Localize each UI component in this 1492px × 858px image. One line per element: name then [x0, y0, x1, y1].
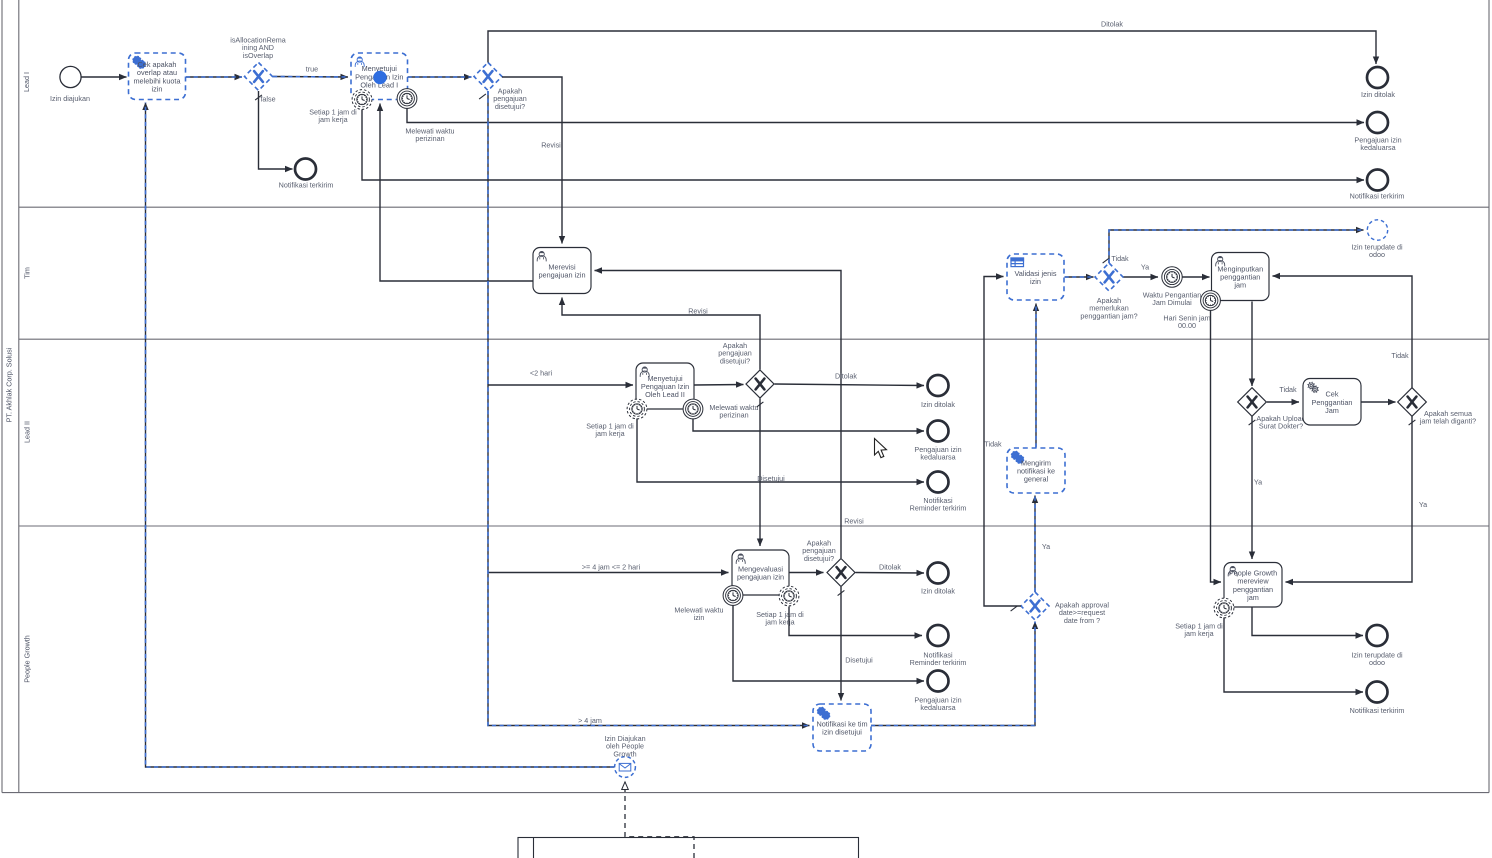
flow Disetujui to Notifikasi ke tim [840, 587, 842, 701]
flow timer to Pengajuan izin kedaluarsa (Lead II) [693, 419, 924, 432]
label Notifikasi Reminder terkirim (Lead II) [910, 496, 967, 513]
end event Izin ditolak (People Growth) [928, 563, 949, 584]
label Izin Diajukan oleh People Growth [604, 734, 645, 758]
flow >=4jam <=2hari to Mengevaluasi [488, 572, 729, 574]
svg-text:disetujui?: disetujui? [804, 554, 834, 563]
svg-text:perizinan: perizinan [415, 134, 444, 143]
svg-text:Notifikasi terkirim: Notifikasi terkirim [279, 181, 334, 190]
svg-text:PT. Akhlak Corp. Solusi: PT. Akhlak Corp. Solusi [5, 347, 14, 422]
svg-text:Izin diajukan: Izin diajukan [50, 94, 90, 103]
flow Tidak to Validasi jenis izin [984, 277, 1021, 607]
label Ya (gateway semua jam) [1419, 500, 1427, 509]
svg-text:Tidak: Tidak [984, 440, 1002, 449]
label Melewati waktu perizinan (Lead I) [405, 127, 454, 144]
task Merevisi pengajuan izin [533, 248, 591, 294]
flow Hari Senin timer to mereview [1211, 311, 1222, 583]
svg-text:Ya: Ya [1042, 542, 1050, 551]
flow Tidak back to Menginputkan [1273, 276, 1413, 388]
flow Cek Penggantian to gateway semua jam [1362, 401, 1396, 403]
label Izin ditolak (People Growth) [921, 587, 955, 596]
label Ditolak (top) [1101, 20, 1123, 29]
flow Menyetujui Lead II to gateway [695, 384, 744, 387]
svg-text:Ditolak: Ditolak [835, 372, 857, 381]
task Cek Penggantian Jam [1303, 379, 1361, 426]
end event Notifikasi Reminder terkirim (Lead II) [928, 472, 949, 493]
gateway Apakah pengajuan disetujui (People Growth) [827, 559, 855, 587]
svg-text:true: true [306, 65, 318, 74]
lane Lead I [22, 72, 31, 92]
label Setiap 1 jam di jam kerja (Lead II) [586, 422, 634, 439]
flow Ya to People Growth mereview (right) [1286, 417, 1413, 583]
timer boundary Melewati waktu (Lead I) [397, 89, 417, 109]
flow Menyetujui Lead I to gateway Apakah [408, 76, 472, 78]
label Tidak (gateway memerlukan) [1111, 254, 1129, 263]
timer intermediate catch Waktu Pengantian Jam Dimulai [1162, 267, 1182, 287]
svg-text:kedaluarsa: kedaluarsa [920, 703, 955, 712]
svg-text:Reminder terkirim: Reminder terkirim [910, 658, 967, 667]
label false [260, 95, 275, 104]
timer boundary Setiap 1 jam (Lead II) [627, 399, 647, 419]
gateway Apakah memerlukan penggantian jam [1095, 263, 1123, 291]
svg-text:jam: jam [1233, 281, 1246, 290]
label Revisi (from Lead II) [688, 307, 708, 316]
svg-text:Oleh Lead II: Oleh Lead II [645, 390, 685, 399]
svg-text:pengajuan izin: pengajuan izin [538, 271, 585, 280]
gateway Apakah pengajuan disetujui (Lead II) [746, 370, 774, 398]
task Notifikasi ke tim izin disetujui [813, 704, 871, 751]
flow Revisi gateway to Merevisi [502, 77, 562, 244]
timer boundary Melewati waktu izin [723, 586, 743, 606]
task Menyetujui Pengajuan Izin Oleh Lead I [351, 53, 408, 100]
svg-text:jam kerja: jam kerja [764, 618, 794, 627]
flow timer to Menginputkan [1183, 276, 1210, 278]
timer boundary Setiap 1 jam (mereview) [1214, 598, 1234, 618]
svg-text:>= 4 jam <= 2 hari: >= 4 jam <= 2 hari [582, 563, 641, 572]
label Setiap 1 jam di jam kerja (People Growth) [756, 610, 804, 627]
label Revisi (from Lead I) [541, 141, 561, 150]
message intermediate catch event Izin Diajukan oleh People Growth [615, 757, 636, 778]
svg-text:Growth: Growth [613, 749, 636, 758]
flow Tidak to Izin terupdate di odoo (dashed end) [1109, 230, 1364, 263]
task Menginputkan penggantian jam [1212, 253, 1270, 301]
flow Notifikasi ke tim to gateway approval [871, 622, 1035, 726]
label Setiap 1 jam di jam kerja (Lead I) [309, 108, 357, 125]
label Ditolak (People Growth) [879, 563, 901, 572]
label Waktu Pengantian Jam Dimulai [1143, 291, 1201, 308]
svg-text:perizinan: perizinan [719, 411, 748, 420]
end event Izin terupdate di odoo (bottom) [1367, 625, 1388, 646]
label Melewati waktu perizinan (Lead II) [709, 403, 758, 420]
svg-text:Jam: Jam [1325, 406, 1339, 415]
flow timer to Notifikasi terkirim (bottom) [1224, 618, 1363, 693]
svg-text:Notifikasi terkirim: Notifikasi terkirim [1350, 192, 1405, 201]
lane divider Tim [19, 207, 1489, 279]
svg-text:Reminder terkirim: Reminder terkirim [910, 504, 967, 513]
end event Pengajuan izin kedaluarsa (Lead I) [1367, 112, 1388, 133]
svg-text:People Growth: People Growth [23, 635, 32, 683]
end event Pengajuan izin kedaluarsa (People Growth) [928, 671, 949, 692]
label Apakah approval date [1055, 601, 1109, 625]
label Notifikasi Reminder terkirim (People Growth) [910, 651, 967, 668]
label > 4 jam [578, 716, 602, 725]
token blue dot [373, 71, 386, 84]
flow Ya to Mengirim notifikasi [1034, 496, 1036, 593]
end event Izin ditolak (Lead II) [928, 375, 949, 396]
svg-text:kedaluarsa: kedaluarsa [920, 453, 955, 462]
end event Izin ditolak (Lead I) [1367, 67, 1388, 88]
task People Growth mereview penggantian jam [1224, 563, 1282, 608]
flow Ditolak to Izin ditolak (Lead I) [488, 31, 1376, 64]
flow Ditolak to Izin ditolak (Lead II) [775, 384, 925, 386]
svg-text:Tim: Tim [23, 267, 32, 279]
svg-text:Ya: Ya [1141, 263, 1149, 272]
task Menyetujui Pengajuan Izin Oleh Lead II [636, 363, 694, 409]
label Izin ditolak (Lead I) [1361, 90, 1395, 99]
svg-text:izin: izin [694, 613, 705, 622]
gateway Apakah pengajuan disetujui (Lead I) [474, 63, 502, 91]
svg-text:jam kerja: jam kerja [1183, 629, 1213, 638]
gateway Apakah Upload Surat Dokter [1238, 388, 1267, 417]
flow Revisi People Growth gateway to Merevisi right [595, 271, 842, 559]
flow false to Notifikasi terkirim [259, 91, 293, 169]
svg-text:odoo: odoo [1369, 250, 1385, 259]
label Izin ditolak (Lead II) [921, 400, 955, 409]
flow Izin Diajukan event to Cek apakah [146, 103, 615, 768]
label Pengajuan izin kedaluarsa (Lead II) [914, 445, 961, 462]
end event Notifikasi terkirim (bottom) [1367, 682, 1388, 703]
svg-text:disetujui?: disetujui? [495, 102, 525, 111]
flow timer to Pengajuan izin kedaluarsa (Lead I) [407, 108, 1364, 123]
flow Validasi to gateway memerlukan [1065, 276, 1094, 278]
flow timer to Pengajuan izin kedaluarsa (People Growth) [733, 606, 924, 682]
flow timer to Notifikasi terkirim (Lead I right) [362, 110, 1364, 181]
flow Cek apakah to gateway [186, 76, 242, 78]
label Izin diajukan [50, 94, 90, 103]
label isAllocationRemaining AND isOverlap [230, 36, 286, 60]
flow timer to Notifikasi Reminder terkirim (Lead II) [637, 419, 924, 483]
svg-text:false: false [260, 95, 275, 104]
timer boundary Hari Senin jam 00.00 [1201, 291, 1221, 311]
svg-text:00.00: 00.00 [1178, 321, 1196, 330]
label Apakah pengajuan disetujui (Lead II) [718, 341, 752, 365]
svg-text:isOverlap: isOverlap [243, 51, 273, 60]
svg-text:jam kerja: jam kerja [594, 429, 624, 438]
flow Mengevaluasi to gateway (People Growth) [790, 572, 824, 574]
label Ya (gateway approval) [1042, 542, 1050, 551]
task Validasi jenis izin [1007, 254, 1064, 300]
svg-text:jam: jam [1246, 593, 1259, 602]
lane divider Lead II [19, 339, 1489, 443]
label Apakah semua jam telah diganti [1419, 409, 1476, 426]
flow timer to Notifikasi Reminder terkirim (People Growth) [789, 607, 922, 636]
svg-text:izin disetujui: izin disetujui [822, 728, 862, 737]
label Melewati waktu izin [674, 606, 723, 623]
svg-text:kedaluarsa: kedaluarsa [1360, 143, 1395, 152]
label Pengajuan izin kedaluarsa (People Growth) [914, 696, 961, 713]
svg-text:Ditolak: Ditolak [879, 563, 901, 572]
flow Mengirim notifikasi to Validasi [1035, 304, 1037, 448]
svg-text:jam telah diganti?: jam telah diganti? [1419, 417, 1476, 426]
svg-text:Revisi: Revisi [844, 517, 864, 526]
gateway isAllocationRemaining AND isOverlap [245, 63, 273, 91]
flow Menginputkan to gateway Upload [1251, 302, 1253, 387]
label Notifikasi terkirim [279, 181, 334, 190]
timer boundary Setiap 1 jam (People Growth) [779, 586, 799, 606]
svg-text:Lead I: Lead I [22, 72, 31, 92]
svg-text:Lead II: Lead II [23, 421, 32, 443]
svg-text:<2 hari: <2 hari [530, 369, 553, 378]
label Apakah memerlukan penggantian jam [1080, 296, 1137, 320]
svg-text:izin: izin [1030, 277, 1041, 286]
label Notifikasi terkirim (bottom) [1350, 706, 1405, 715]
svg-text:Disetujui: Disetujui [845, 656, 873, 665]
svg-text:Tidak: Tidak [1279, 385, 1297, 394]
flow <2 hari to Menyetujui Lead II [488, 384, 633, 386]
label <2 hari [530, 369, 553, 378]
label Pengajuan izin kedaluarsa (Lead I) [1354, 136, 1401, 153]
flow Ya to timer Waktu Pengantian [1124, 276, 1159, 278]
label Hari Senin jam 00.00 [1163, 314, 1210, 331]
task Mengevaluasi pengajuan izin [732, 550, 789, 595]
svg-text:Ditolak: Ditolak [1101, 20, 1123, 29]
svg-text:izin: izin [152, 85, 163, 94]
end event Notifikasi terkirim (Lead I right) [1367, 170, 1388, 191]
flow mereview to Izin terupdate di odoo [1252, 608, 1363, 636]
label true [306, 65, 318, 74]
label Apakah pengajuan disetujui (People Growth) [802, 539, 836, 563]
end event Pengajuan izin kedaluarsa (Lead II) [928, 421, 949, 442]
bottom pool (partially visible) [518, 838, 859, 858]
label Izin terupdate di odoo (bottom) [1351, 651, 1403, 668]
timer boundary Melewati waktu (Lead II) [683, 399, 703, 419]
label Ditolak (Lead II) [835, 372, 857, 381]
flow Disetujui down to Mengevaluasi [759, 399, 761, 547]
label Revisi (from People Growth) [844, 517, 864, 526]
svg-text:Tidak: Tidak [1111, 254, 1129, 263]
flow start to Cek apakah [81, 76, 126, 78]
lane divider People Growth [19, 526, 1489, 683]
label Notifikasi terkirim (Lead I right) [1350, 192, 1405, 201]
svg-text:Ya: Ya [1419, 500, 1427, 509]
end event Notifikasi Reminder terkirim (People Growth) [928, 625, 949, 646]
flow Tidak to Cek Penggantian Jam [1267, 401, 1299, 403]
flow Revisi Lead II gateway to Merevisi bottom [562, 298, 760, 370]
svg-text:> 4 jam: > 4 jam [578, 716, 602, 725]
flow >4jam to Notifikasi ke tim [488, 91, 810, 726]
label Disetujui (Lead II) [757, 474, 785, 483]
label Setiap 1 jam di jam kerja (mereview) [1175, 622, 1223, 639]
task Cek apakah overlap atau melebihi kuota izin [129, 53, 186, 100]
flow Merevisi to Menyetujui Lead I [380, 104, 533, 282]
svg-text:Revisi: Revisi [541, 141, 561, 150]
svg-text:Jam Dimulai: Jam Dimulai [1152, 298, 1192, 307]
svg-text:Tidak: Tidak [1391, 351, 1409, 360]
flow Ditolak to Izin ditolak (People Growth) [856, 572, 925, 575]
mouse cursor [875, 439, 887, 458]
flow Ya to People Growth mereview (top) [1251, 417, 1253, 560]
svg-text:Izin ditolak: Izin ditolak [921, 587, 955, 596]
svg-text:pengajuan izin: pengajuan izin [737, 573, 784, 582]
label Tidak (gateway Upload) [1279, 385, 1297, 394]
start event Izin diajukan [60, 66, 81, 87]
label Apakah pengajuan disetujui (Lead I) [493, 87, 527, 111]
flow true to Menyetujui Lead I [273, 76, 348, 79]
svg-text:Revisi: Revisi [688, 307, 708, 316]
svg-text:Ya: Ya [1254, 478, 1262, 487]
svg-text:penggantian jam?: penggantian jam? [1080, 311, 1137, 320]
label Ya (gateway Upload) [1254, 478, 1262, 487]
svg-text:odoo: odoo [1369, 658, 1385, 667]
gateway Apakah approval date >= request date from [1021, 592, 1049, 620]
label Ya (gateway memerlukan) [1141, 263, 1149, 272]
svg-text:general: general [1024, 475, 1049, 484]
svg-text:disetujui?: disetujui? [720, 356, 750, 365]
gateway Apakah semua jam telah diganti [1398, 388, 1427, 417]
message flow from bottom pool to event [625, 782, 694, 858]
label >= 4 jam <= 2 hari [582, 563, 641, 572]
label Tidak (gateway semua jam) [1391, 351, 1409, 360]
svg-text:jam kerja: jam kerja [317, 115, 347, 124]
end event Notifikasi terkirim (Lead I) [295, 159, 316, 180]
label Apakah Upload Surat Dokter [1256, 414, 1305, 431]
svg-text:Izin ditolak: Izin ditolak [1361, 90, 1395, 99]
task Mengirim notifikasi ke general [1007, 448, 1065, 493]
svg-text:Izin ditolak: Izin ditolak [921, 400, 955, 409]
label Disetujui (People Growth) [845, 656, 873, 665]
svg-text:Notifikasi terkirim: Notifikasi terkirim [1350, 706, 1405, 715]
label Tidak (gateway approval) [984, 440, 1002, 449]
end event Izin terupdate di odoo (selected) [1367, 220, 1387, 240]
timer boundary Setiap 1 jam (Lead I) [352, 90, 372, 110]
svg-text:Surat Dokter?: Surat Dokter? [1259, 422, 1303, 431]
svg-text:date from ?: date from ? [1064, 616, 1100, 625]
label Izin terupdate di odoo (top) [1351, 243, 1403, 260]
